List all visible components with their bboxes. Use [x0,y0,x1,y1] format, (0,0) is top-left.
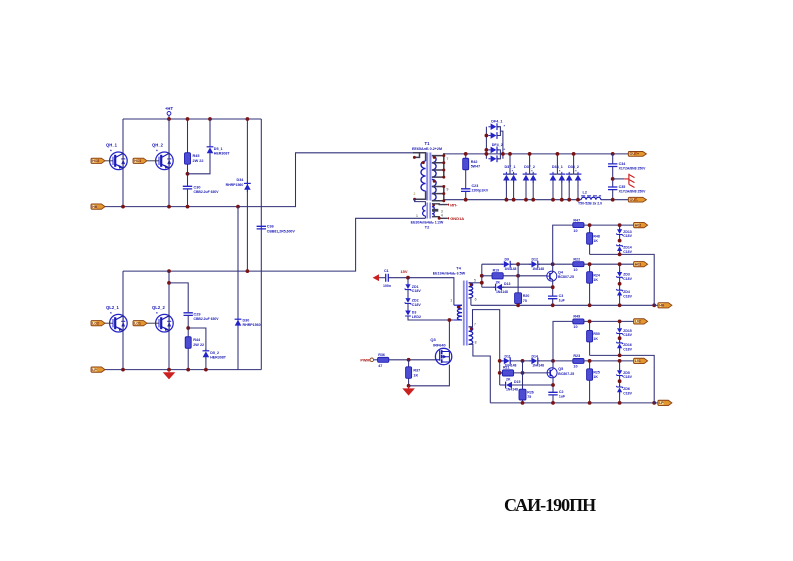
svg-text:*: * [110,149,112,154]
wire QL2_1 collector corner [0,0,1,1]
svg-text:ЕЕ65АлБ 0.2+2М: ЕЕ65АлБ 0.2+2М [412,147,442,151]
svg-text:RHRP1560: RHRP1560 [226,183,244,187]
wire C34-C35 [612,167,614,188]
wire T4 pin7 to L block [469,310,500,361]
svg-text:1N4148: 1N4148 [505,267,517,271]
junction DF4 bus row3 [485,148,489,152]
junction L row2 / R26 column [521,371,525,375]
svg-text:R36: R36 [378,353,385,357]
svg-text:D13: D13 [504,282,510,286]
zener ZD2 C18V [405,296,422,307]
diode pair D37_2 [523,154,537,200]
port HO2 [91,158,105,163]
junction ZD5/ZD6 [618,379,622,383]
junction lower emitter / D5_2 [204,368,208,372]
resistor R48 [587,233,600,245]
power +15V arrow [373,274,386,281]
junction H rail / ZD4 [618,303,622,307]
junction D38_2 anode a [567,198,571,202]
svg-text:1N4148: 1N4148 [506,388,518,392]
wire +HT top rail [123,118,261,120]
junction lower rail / D34 [246,269,250,273]
wire H row1 mid [510,263,531,265]
junction C29/R44/D5_2 [186,326,190,330]
svg-text:HO1: HO1 [134,159,141,163]
svg-text:5W47: 5W47 [471,165,480,169]
junction gate / R37 [407,358,411,362]
wire R48 column [589,225,591,233]
resistor R45 [185,153,204,165]
junction DF4 bus row2 [485,134,489,138]
diode D34 RHRP1560 [244,181,251,192]
transistor QH_2 [156,152,174,170]
junction C35 bottom [611,198,615,202]
transistor QH_1 [110,152,128,170]
wire Q3 drain [448,320,450,349]
wire L row3 to emitter [512,384,553,386]
transformer T2 current sense [411,199,448,229]
wire D5_2 branch [188,328,206,350]
net label ИП- [447,202,458,207]
transistor QL2_1 [110,314,128,332]
resistor R47 [573,218,584,232]
wire R37 bottom lead [408,378,410,388]
port HB right [658,303,672,308]
wire zener stack top [407,278,409,285]
wire QH_2 collector-emitter [168,119,170,207]
svg-text:D11: D11 [505,354,511,358]
wire R49 to L02 [584,320,634,322]
junction H rail / R24 [588,303,592,307]
net label GND1A [447,216,464,221]
svg-text:1: 1 [416,214,418,218]
wire DF4 anode bus [485,127,487,159]
svg-text:1K: 1K [593,375,598,379]
svg-text:C18V: C18V [623,250,632,254]
wire R50 column [589,321,591,330]
junction Q4 emitter / D13 [551,285,555,289]
svg-text:L01: L01 [635,359,641,363]
junction D38_1 stem [556,152,560,156]
wire D5_1 top lead [209,119,211,146]
wire HO1-QH_2 gate [147,160,155,162]
svg-text:ZD14: ZD14 [623,246,632,250]
svg-text:H01: H01 [635,263,641,267]
junction C34/C35 mid [611,177,615,181]
junction Q5 emitter / D15 [551,383,555,387]
svg-text:9: 9 [446,188,448,192]
wire C3 bottom lead [552,299,554,306]
svg-text:R26: R26 [527,391,533,395]
wire R36 to gate [389,359,436,361]
junction H row1 / Q4 collector [551,262,555,266]
svg-text:R22: R22 [573,258,580,262]
wire lower bridge top rail [123,218,425,271]
junction lower rail / QL2_2 [167,269,171,273]
svg-text:RHRP1560: RHRP1560 [243,323,261,327]
junction D37_1 anode b [512,198,516,202]
svg-text:CBB81,2R5,600V: CBB81,2R5,600V [267,229,296,233]
diode D15 1N4148 [503,380,520,392]
wire ZD2-D3 [407,303,409,311]
svg-text:75: 75 [523,299,527,303]
wire D5_2 bottom lead [205,357,207,369]
capacitor C30 [183,185,220,193]
wire DF4 cathode join upper [497,127,500,136]
svg-text:C35: C35 [619,185,626,189]
port OUT- [628,197,646,202]
svg-text:8: 8 [475,340,477,344]
junction H rail / HB riser [652,303,656,307]
port LP [91,367,105,372]
svg-text:D5_1: D5_1 [214,147,223,151]
svg-text:ZD1: ZD1 [412,285,419,289]
wire H row3 [482,286,496,288]
svg-text:HB: HB [92,205,97,209]
wire secondary bottom rail [445,199,581,201]
junction DF4 bus rail [485,152,489,156]
svg-text:LP: LP [659,401,664,405]
svg-text:C18V: C18V [623,234,632,238]
port PWM input [360,358,377,362]
diode D3 LED [405,309,421,319]
junction H02 wire / R48 [588,223,592,227]
svg-text:GND1A: GND1A [450,216,464,221]
junction D37_2 anode a [524,198,528,202]
wire T4 pin8 to L rail [469,344,491,403]
junction D37_1 stem [508,152,512,156]
junction DF4 out rail [501,152,505,156]
diode pair D38_1 [550,154,566,200]
capacitor C29 [184,313,220,322]
diode DF4_1b [488,132,499,139]
wire L left bus [499,361,501,385]
svg-text:DF4_1: DF4_1 [491,119,502,123]
zener ZD6 C18V [616,385,632,395]
wire R45 bottom lead [187,164,189,186]
svg-text:C18V: C18V [623,277,632,281]
junction T4 primary bottom / Q3 drain [448,318,452,322]
capacitor C35 [608,185,646,194]
junction D38_1 anode a [551,198,555,202]
svg-text:X1Y2A/8N8 250V: X1Y2A/8N8 250V [619,167,647,171]
svg-text:R23: R23 [573,354,580,358]
wire R23 to L01 [584,360,634,362]
capacitor C2 [548,390,566,399]
wire R20 bottom lead [517,304,519,305]
junction L row1 left [498,359,502,363]
zener ZD5 C18V [616,368,632,379]
svg-text:C18V: C18V [412,303,422,307]
junction L rail / R25 [588,401,592,405]
wire R37 top lead [408,360,410,367]
svg-text:R49: R49 [573,315,580,319]
junction ZD3/ZD4 [618,282,622,286]
junction top rail / QH_2 [167,117,171,121]
capacitor C36 [257,224,296,233]
port L01 [634,358,648,363]
wire ZD5 top lead [619,361,621,370]
svg-text:C2: C2 [559,390,564,394]
wire ZD5-ZD6 [619,375,621,387]
junction D38_2 anode b [576,198,580,202]
port HB [91,204,105,209]
svg-text:1uF: 1uF [559,395,566,399]
resistor R23 [573,354,584,368]
resistor R24 [587,272,600,284]
svg-text:QL2_1: QL2_1 [106,305,119,310]
svg-text:2W 22: 2W 22 [193,159,204,163]
wire lower emitter rail [105,369,261,371]
wire Q5 emitter [552,377,554,393]
svg-text:ZD2: ZD2 [412,299,419,303]
wire L02 clamp rail [590,355,655,403]
diode D9 1N4148 [502,258,517,271]
diode D14 1N4148 [529,354,544,367]
diode DF4_1a [488,123,499,130]
svg-text:R45: R45 [193,154,200,158]
diode D13 1N4148 [493,282,510,294]
wire to LP port [654,402,658,404]
wire R42 top lead [465,154,467,158]
wire R24 column [589,264,591,271]
wire C1 to 15V node [388,278,454,306]
svg-text:10: 10 [573,268,577,272]
svg-text:LP: LP [92,368,97,372]
junction D38_1 anode b [560,198,564,202]
svg-text:R21: R21 [503,365,509,369]
junction top rail / D34 [246,117,250,121]
junction snubber top [464,152,468,156]
wire Q3 source [409,365,450,386]
wire L row1 mid [510,360,531,362]
svg-text:10: 10 [573,325,577,329]
svg-text:X1Y2A/8N8 250V: X1Y2A/8N8 250V [619,190,647,194]
svg-text:R48: R48 [593,234,599,238]
svg-text:C1: C1 [384,269,389,273]
zener ZD16 C18V [616,341,632,351]
junction clamp rail / ZD14 [618,253,622,257]
svg-text:H02: H02 [635,223,641,227]
wire H row2 to base [503,275,547,277]
junction H row2 / R20 column [516,274,520,278]
resistor R42 [463,158,480,170]
svg-text:10: 10 [573,365,577,369]
junction L row1 / R26 column [521,359,525,363]
diode D12 1N4148 [529,258,544,271]
junction H01 wire / R24 [588,262,592,266]
svg-text:R24: R24 [593,273,599,277]
wire DF4 output stub [500,131,503,159]
wire R42-C23 [465,170,467,189]
svg-text:LO2: LO2 [92,322,99,326]
junction H bus sec1 [480,281,484,285]
wire D5_1 to junction [188,153,211,174]
svg-text:R25: R25 [593,371,599,375]
svg-text:L2: L2 [583,191,587,195]
svg-text:ЕЕ19АлБ4аЬ 6:5W: ЕЕ19АлБ4аЬ 6:5W [433,271,466,275]
svg-text:15V: 15V [400,269,407,274]
wire C2 bottom lead [552,395,554,403]
svg-text:ИП-: ИП- [450,202,458,207]
svg-text:Q5: Q5 [558,367,563,371]
svg-text:D3: D3 [412,311,417,315]
wire QH_1 collector-emitter [122,119,124,207]
capacitor C34 [608,162,646,171]
wire DF4 cathode join lower [497,150,500,159]
svg-text:R50: R50 [593,332,599,336]
svg-text:R44: R44 [193,338,201,342]
wire R26 column [522,361,524,389]
wire ZD1-ZD2 [407,290,409,299]
svg-text:D14: D14 [532,354,538,358]
junction D37_1 anode a [505,198,509,202]
svg-text:+HT: +HT [165,106,173,111]
diode D5_2 HER308T [203,349,227,360]
port OUT+ [628,151,646,156]
svg-text:D9: D9 [505,258,510,262]
wire bottom rail after L2 [601,199,629,201]
svg-text:*: * [156,149,158,154]
wire R25 bottom lead [589,380,591,403]
wire R47 to H02 [584,224,634,226]
svg-text:47: 47 [378,364,382,368]
chassis ground symbol [613,174,635,188]
wire ZD3-ZD4 [619,277,621,290]
wire R26 bottom lead [522,400,524,403]
svg-text:R47: R47 [573,218,580,222]
zener ZD3 C18V [616,270,632,281]
svg-text:2W 22: 2W 22 [193,343,204,347]
svg-text:QL2_2: QL2_2 [152,305,165,310]
junction R45/C30/D5_1 [186,172,190,176]
junction H02 wire / ZD13 [618,223,622,227]
svg-text:1N4148: 1N4148 [496,290,508,294]
wire Q5 collector [552,361,554,369]
wire Q4 collector [552,264,554,272]
transistor Q5 BC807-25 [547,368,557,378]
svg-text:IRF640: IRF640 [433,343,445,347]
wire R48 bottom lead [589,244,591,254]
wire LO1-QL2_2 gate [147,322,155,324]
junction lower emitter / QL2_2 gnd [167,368,171,372]
port LO1 [133,321,147,326]
junction lower emitter / QL2_1 [121,368,125,372]
wire QL2_2 collector-emitter [168,271,170,370]
zener ZD15 C18V [616,326,632,337]
svg-text:BC807-25: BC807-25 [558,275,574,279]
wire H02 clamp rail [590,254,655,305]
zener ZD1 C18V [405,283,422,294]
svg-text:HO2: HO2 [92,159,99,163]
junction emitter rail / D30 column [236,205,240,209]
svg-text:L02: L02 [635,320,641,324]
junction L bus row2 [498,371,502,375]
junction D38_2 stem [572,152,576,156]
junction H01 wire / ZD3 [618,262,622,266]
wire H02 branch [553,225,573,264]
svg-text:HER308T: HER308T [210,355,227,359]
svg-text:BC807-25: BC807-25 [558,372,574,376]
svg-text:ZD6: ZD6 [623,387,630,391]
wire H row1 to Q4 [538,263,573,265]
wire ZD13 top lead [619,225,621,230]
junction 15V node [406,276,410,280]
svg-text:LED2: LED2 [412,315,421,319]
svg-text:C3: C3 [559,294,564,298]
svg-text:100n: 100n [383,284,391,288]
svg-text:1K: 1K [413,373,418,377]
power +HT node [165,106,173,119]
wire R24 bottom lead [589,283,591,305]
svg-text:C29: C29 [194,313,201,317]
wire secondary top rail [445,153,628,155]
zener ZD14 C18V [616,244,632,254]
junction emitter rail / C30 [186,205,190,209]
svg-text:R42: R42 [471,160,478,164]
svg-text:T1: T1 [425,141,431,146]
resistor R26 [519,389,534,400]
resistor R22 [573,258,584,272]
wire ZD16 bottom lead [619,348,621,355]
resistor R50 [587,330,600,342]
ground symbol lower bridge [163,370,176,380]
wire C29 to R44 [187,315,189,369]
wire upper emitter rail [105,153,413,207]
svg-text:6: 6 [475,297,477,301]
wire ZD14 bottom lead [619,251,621,255]
inductor L2 [578,191,602,206]
resistor R20 [515,293,530,304]
junction emitter rail / QH_1 [121,205,125,209]
svg-text:*: * [110,311,112,316]
junction QL2_2 collector tap [167,281,171,285]
wire snubber tap [169,283,188,312]
wire D34 column [246,119,248,271]
svg-text:R20: R20 [523,294,529,298]
port LO2 [91,321,105,326]
svg-text:*: * [156,311,158,316]
junction L rail / R26 [521,401,525,405]
wire H row2 [482,275,492,277]
junction H bus row2 [480,274,484,278]
svg-text:T4: T4 [456,265,461,270]
wire C35 bottom lead [612,190,614,200]
svg-text:75: 75 [527,395,531,399]
junction D37_2 stem [528,152,532,156]
svg-text:САИ-190ПН: САИ-190ПН [504,495,596,515]
svg-text:4: 4 [441,214,443,218]
wire L bottom rail [490,402,654,404]
wire ZD6 bottom lead [619,392,621,403]
wire ZD4 bottom lead [619,295,621,305]
wire ZD13-ZD14 [619,234,621,240]
wire D3 to T4 primary bottom [408,316,454,320]
resistor R37 [406,367,421,379]
wire H bottom rail left riser [469,298,471,305]
wire QL2_1 collector-emitter [122,271,124,370]
resistor R49 [573,315,584,329]
wire ZD15-ZD16 [619,333,621,343]
wire L row3 [500,384,506,386]
svg-text:D5_2: D5_2 [210,351,219,355]
port LP right [658,400,672,405]
svg-text:C18V: C18V [623,375,632,379]
svg-text:10: 10 [573,229,577,233]
wire R22 to H01 [584,263,634,265]
svg-text:OUT-: OUT- [630,198,639,202]
svg-text:C34: C34 [619,162,627,166]
